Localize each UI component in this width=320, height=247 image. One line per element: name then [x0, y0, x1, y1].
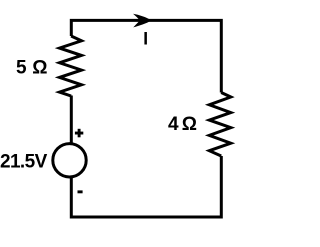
label I [144, 32, 147, 45]
svg-text:21.5V: 21.5V [0, 151, 48, 172]
resistor R1 (5 ohm) zigzag [60, 36, 82, 96]
svg-text:4: 4 [168, 114, 179, 135]
wire: between resistor R1 and source V1 [70, 96, 73, 145]
voltage source V1 circle [53, 144, 86, 177]
svg-text:Ω: Ω [182, 114, 197, 135]
minus sign [78, 190, 83, 193]
wire: source bottom lead, bottom wire, right lead from R2 [71, 156, 221, 217]
wire: top-left corner, top wire, right lead to R2 [71, 20, 221, 92]
svg-text:5: 5 [16, 58, 27, 79]
plus sign [75, 132, 83, 135]
current direction arrow on top wire [133, 14, 152, 28]
resistor R2 (4 ohm) zigzag [209, 93, 231, 157]
svg-text:Ω: Ω [32, 58, 47, 79]
